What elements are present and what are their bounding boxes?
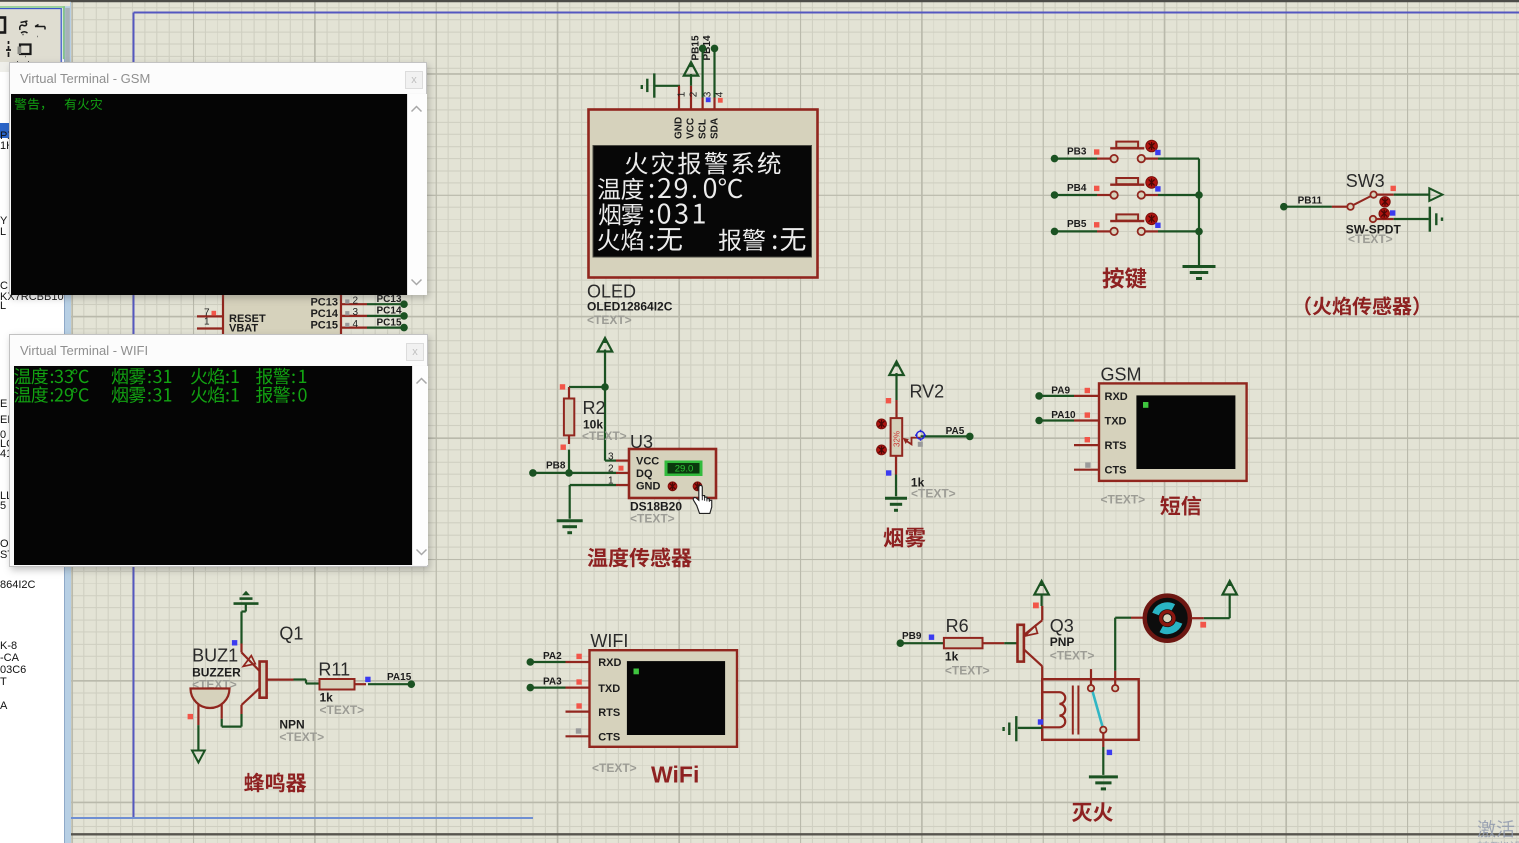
svg-text:PC14: PC14 — [310, 308, 338, 320]
svg-text:OLED12864I2C: OLED12864I2C — [587, 300, 673, 314]
svg-text:GND: GND — [674, 117, 685, 139]
svg-text:PB11: PB11 — [1298, 196, 1323, 207]
svg-text:PB8: PB8 — [546, 461, 566, 472]
svg-text:29.0: 29.0 — [675, 464, 694, 475]
svg-text:2: 2 — [608, 464, 614, 475]
svg-text:PA3: PA3 — [543, 677, 562, 688]
svg-text:Q1: Q1 — [279, 624, 303, 644]
svg-text:VBAT: VBAT — [229, 323, 258, 335]
svg-text:PA2: PA2 — [543, 651, 562, 662]
svg-text:RTS: RTS — [598, 707, 620, 719]
svg-text:<TEXT>: <TEXT> — [1348, 232, 1393, 246]
svg-text:BUZ1: BUZ1 — [192, 646, 238, 666]
svg-text:CTS: CTS — [598, 732, 620, 744]
svg-text:1: 1 — [608, 476, 614, 487]
svg-text:TXD: TXD — [598, 683, 620, 695]
svg-text:PA10: PA10 — [1051, 410, 1076, 421]
svg-text:PA9: PA9 — [1051, 385, 1070, 396]
svg-text:RTS: RTS — [1105, 440, 1127, 452]
svg-text:RXD: RXD — [1105, 391, 1128, 403]
svg-text:<TEXT>: <TEXT> — [1101, 493, 1146, 507]
svg-text:GSM: GSM — [1101, 365, 1142, 385]
svg-text:GND: GND — [636, 480, 661, 492]
svg-text:R2: R2 — [583, 398, 606, 418]
svg-text:<TEXT>: <TEXT> — [630, 512, 675, 526]
svg-text:1k: 1k — [945, 650, 959, 664]
svg-text:<TEXT>: <TEXT> — [592, 761, 637, 775]
svg-text:4: 4 — [353, 319, 359, 330]
svg-text:1: 1 — [204, 317, 210, 328]
svg-text:2: 2 — [689, 91, 700, 97]
svg-text:<TEXT>: <TEXT> — [587, 313, 632, 327]
svg-text:WIFI: WIFI — [590, 631, 628, 651]
svg-text:PA15: PA15 — [387, 672, 412, 683]
svg-text:3: 3 — [703, 91, 714, 97]
svg-text:<TEXT>: <TEXT> — [582, 429, 627, 443]
svg-text:3: 3 — [353, 307, 359, 318]
svg-text:SW3: SW3 — [1346, 171, 1385, 191]
svg-text:2: 2 — [353, 295, 359, 306]
svg-text:4: 4 — [715, 91, 726, 97]
svg-text:3: 3 — [608, 451, 614, 462]
svg-text:PC15: PC15 — [377, 317, 402, 328]
svg-text:32%: 32% — [893, 431, 902, 447]
svg-text:<TEXT>: <TEXT> — [911, 487, 956, 501]
svg-text:U3: U3 — [630, 432, 653, 452]
svg-text:R11: R11 — [318, 660, 350, 680]
svg-text:PB4: PB4 — [1067, 183, 1087, 194]
svg-text:<TEXT>: <TEXT> — [279, 730, 324, 744]
svg-text:R6: R6 — [946, 616, 969, 636]
svg-text:TXD: TXD — [1105, 415, 1127, 427]
svg-text:SDA: SDA — [710, 118, 721, 139]
svg-text:<TEXT>: <TEXT> — [320, 703, 365, 717]
svg-text:CTS: CTS — [1105, 465, 1127, 477]
svg-text:PC13: PC13 — [377, 294, 402, 305]
svg-text:1: 1 — [677, 91, 688, 97]
svg-text:PC14: PC14 — [377, 306, 402, 317]
svg-text:VCC: VCC — [636, 455, 659, 467]
svg-text:WiFi: WiFi — [651, 762, 699, 788]
svg-text:RV2: RV2 — [910, 382, 945, 402]
svg-text:DQ: DQ — [636, 468, 653, 480]
svg-text:PA5: PA5 — [946, 426, 965, 437]
svg-text:<TEXT>: <TEXT> — [1050, 649, 1095, 663]
svg-text:PNP: PNP — [1050, 635, 1075, 649]
svg-text:PB5: PB5 — [1067, 219, 1087, 230]
svg-text:OLED: OLED — [587, 282, 636, 302]
svg-text:VCC: VCC — [686, 118, 697, 139]
svg-text:PC15: PC15 — [310, 319, 338, 331]
svg-text:SCL: SCL — [698, 119, 709, 139]
svg-text:PB9: PB9 — [902, 631, 922, 642]
svg-text:PB3: PB3 — [1067, 146, 1087, 157]
svg-text:RXD: RXD — [598, 657, 621, 669]
svg-text:Q3: Q3 — [1050, 616, 1074, 636]
svg-text:PC13: PC13 — [310, 296, 338, 308]
svg-text:<TEXT>: <TEXT> — [945, 664, 990, 678]
